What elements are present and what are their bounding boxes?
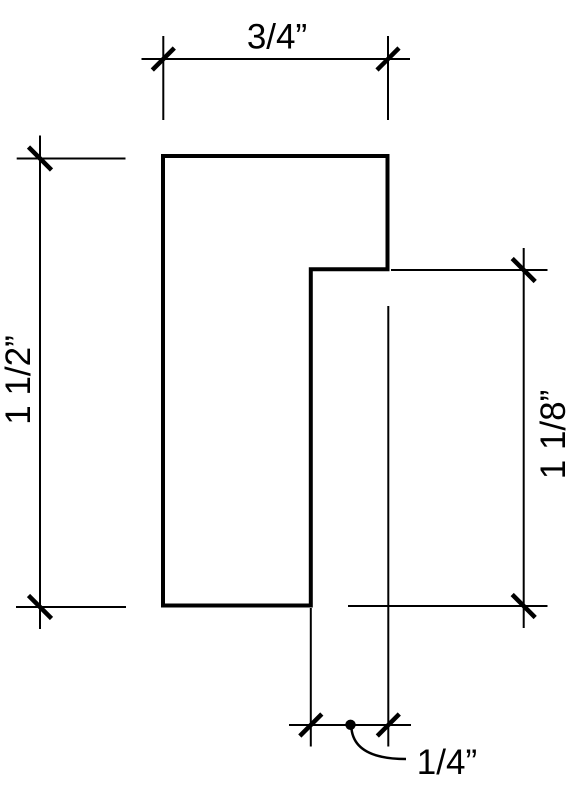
- bottom left tick: [300, 714, 322, 736]
- bottom right tick: [377, 714, 399, 736]
- reference dot on bottom dimension: [345, 720, 355, 730]
- bottom left extension line: [310, 608, 312, 747]
- left bottom tick: [29, 596, 52, 619]
- top left extension line: [162, 36, 164, 120]
- left bottom extension line: [16, 606, 126, 608]
- bottom right extension line: [387, 306, 389, 747]
- profile outline (L-shaped moulding section): [163, 156, 388, 606]
- bottom dimension line (1/4"): [289, 724, 411, 726]
- svg-text:1 1/8”: 1 1/8”: [534, 390, 573, 480]
- left top extension line: [17, 158, 126, 160]
- leader curve from dot to 1/4" label: [352, 729, 407, 759]
- right top extension line: [391, 269, 548, 271]
- right top tick: [512, 259, 535, 282]
- top left tick: [152, 48, 174, 70]
- right dimension line (1 1/8"): [523, 248, 525, 628]
- left dimension line (1 1/2"): [39, 136, 41, 630]
- top dimension line (3/4"): [142, 58, 411, 60]
- top right tick: [377, 48, 399, 70]
- top right extension line: [387, 36, 389, 120]
- right bottom tick: [512, 595, 535, 618]
- right bottom extension line: [348, 605, 548, 607]
- svg-text:1/4”: 1/4”: [417, 743, 477, 782]
- left top tick: [29, 147, 52, 170]
- svg-text:1 1/2”: 1 1/2”: [0, 335, 38, 425]
- svg-text:3/4”: 3/4”: [247, 18, 307, 57]
